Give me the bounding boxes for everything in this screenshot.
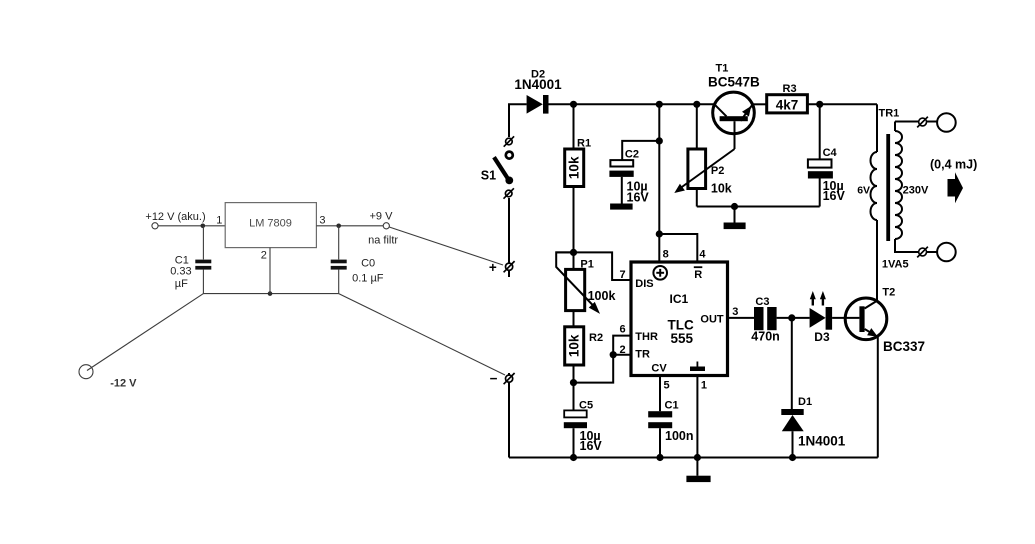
IC1 TLC555 box	[631, 262, 728, 376]
svg-text:−: −	[490, 371, 498, 386]
wire pin 2 to ground bus	[269, 248, 271, 294]
svg-text:10k: 10k	[711, 181, 732, 195]
connector minus contact	[504, 373, 515, 458]
capacitor C2	[609, 160, 633, 177]
node rail/R1	[570, 101, 577, 108]
wire pin4 branch	[659, 234, 697, 262]
svg-text:R1: R1	[577, 137, 591, 149]
wire C2 branch horizontal	[622, 141, 659, 160]
node input/C1 junction	[201, 224, 206, 229]
wire diagonal ground to minus connector	[339, 294, 505, 375]
ground below C2	[610, 204, 633, 210]
svg-text:+: +	[489, 260, 497, 275]
wire C0 stem lower	[338, 270, 340, 294]
wire C2 to ground	[621, 177, 623, 204]
node rail/pin1	[694, 454, 701, 461]
svg-text:BC547B: BC547B	[708, 74, 760, 89]
wire D3 to T2 base	[832, 317, 859, 319]
ground below pin1	[686, 476, 710, 482]
svg-text:C4: C4	[823, 147, 838, 159]
wire C1 bottom	[659, 428, 661, 457]
svg-text:BC337: BC337	[883, 339, 925, 354]
wire ground bus left	[203, 293, 338, 295]
wire P2 bottom	[696, 189, 698, 207]
svg-text:8: 8	[663, 249, 669, 261]
wire secondary top to connector	[895, 121, 919, 123]
wire C5 top	[573, 383, 575, 411]
wire C2 vertical rail to IC pin8	[658, 104, 660, 262]
svg-text:7: 7	[620, 269, 626, 281]
svg-text:0.1 µF: 0.1 µF	[352, 272, 384, 284]
resistor R1	[565, 149, 584, 187]
wire T2 emitter down	[877, 337, 879, 458]
wire T2 collector up	[876, 220, 878, 301]
node pin2/ground junction	[268, 291, 273, 296]
wire D1 bottom	[792, 431, 794, 457]
capacitor C1	[195, 260, 211, 264]
svg-text:CV: CV	[651, 362, 667, 374]
diode D1	[781, 409, 803, 431]
svg-text:3: 3	[732, 306, 738, 318]
wire C4 to P2 bottom	[697, 206, 820, 208]
svg-text:TR: TR	[635, 349, 650, 361]
svg-text:DIS: DIS	[635, 278, 653, 290]
svg-text:S1: S1	[481, 168, 496, 182]
terminal +9V output	[383, 223, 389, 229]
svg-text:10k: 10k	[567, 156, 582, 179]
output energy arrow	[948, 172, 964, 203]
svg-text:3: 3	[319, 214, 325, 226]
node R3/C4 junction	[816, 101, 823, 108]
node rail/P2	[693, 101, 700, 108]
wire pin3 OUT	[728, 317, 755, 319]
node rail/C5	[570, 454, 577, 461]
wire C1 stem upper	[202, 226, 204, 260]
wire T1 emitter to R3	[753, 103, 767, 105]
svg-text:T2: T2	[882, 287, 895, 299]
svg-text:4k7: 4k7	[776, 97, 799, 112]
IC internal ground mark	[690, 362, 705, 372]
transformer core	[886, 134, 890, 241]
svg-text:C3: C3	[755, 296, 769, 308]
wire R2 bottom	[573, 365, 575, 383]
wire C5 bottom	[573, 428, 575, 457]
node rail/D1	[789, 454, 796, 461]
bottom rail	[509, 457, 878, 459]
svg-text:6V: 6V	[857, 184, 870, 196]
pin 4 R-bar label	[694, 267, 703, 281]
transformer TR1 secondary	[895, 122, 919, 253]
svg-text:2: 2	[261, 249, 267, 261]
node rail/C1	[656, 454, 663, 461]
svg-text:-12 V: -12 V	[110, 378, 137, 390]
svg-text:R: R	[694, 269, 702, 281]
capacitor C3	[754, 307, 777, 330]
wire R1 bottom to P1	[573, 187, 575, 270]
svg-text:16V: 16V	[823, 189, 846, 203]
transistor T2 BC337	[845, 298, 887, 340]
wire R3 to transformer	[807, 103, 877, 105]
switch S1	[494, 136, 514, 198]
wire top rail D2 to T1	[549, 103, 715, 105]
capacitor C5	[564, 410, 587, 428]
capacitor C4	[808, 159, 833, 178]
svg-text:P1: P1	[580, 258, 593, 270]
svg-text:D1: D1	[798, 396, 812, 408]
transistor T1 BC547B	[713, 92, 755, 149]
svg-text:µF: µF	[175, 278, 188, 290]
wire input to regulator	[158, 225, 225, 227]
svg-text:C2: C2	[625, 148, 639, 160]
svg-text:C1: C1	[665, 400, 679, 412]
svg-text:1N4001: 1N4001	[514, 77, 562, 92]
output terminal bottom big	[926, 243, 956, 262]
wire diagonal +9V to plus connector	[389, 227, 503, 265]
wire regulator output	[316, 225, 383, 227]
wire junction to THR/TR	[574, 336, 632, 383]
svg-text:na filtr: na filtr	[368, 235, 398, 247]
node R2/C5 junction	[570, 379, 577, 386]
resistor R2	[565, 327, 584, 365]
output contact top small	[917, 117, 928, 128]
svg-text:2: 2	[620, 344, 626, 356]
svg-text:C0: C0	[361, 257, 375, 269]
svg-text:C5: C5	[579, 400, 593, 412]
wire P2 top	[696, 104, 698, 149]
LED D3	[810, 291, 833, 330]
svg-text:100n: 100n	[665, 429, 694, 443]
output contact bottom small	[917, 247, 928, 258]
wire pin1 down	[696, 376, 698, 476]
potentiometer P1	[556, 252, 600, 314]
diode D2	[527, 95, 549, 114]
wire P1 top to pin7	[556, 252, 632, 280]
svg-text:LM 7809: LM 7809	[249, 218, 292, 230]
svg-text:10k: 10k	[567, 334, 582, 357]
svg-text:555: 555	[671, 331, 694, 346]
svg-text:THR: THR	[635, 331, 658, 343]
wire C4 stem upper	[819, 104, 821, 159]
svg-text:T1: T1	[716, 62, 729, 74]
wire C3 to D3	[777, 317, 810, 319]
node P2/ground junction	[731, 203, 738, 210]
wire TR pin	[613, 354, 631, 356]
terminal -12V	[79, 365, 93, 379]
wire D1 vertical	[791, 318, 793, 409]
svg-text:IC1: IC1	[670, 292, 689, 306]
node TR junction	[610, 351, 617, 358]
svg-text:+12 V (aku.): +12 V (aku.)	[145, 211, 205, 223]
capacitor C1 100n	[648, 411, 672, 428]
svg-text:100k: 100k	[588, 289, 616, 303]
svg-text:4: 4	[699, 249, 706, 261]
svg-text:R2: R2	[589, 332, 603, 344]
wire diagonal to -12V terminal	[87, 294, 203, 371]
svg-text:16V: 16V	[580, 439, 603, 453]
svg-text:P2: P2	[711, 165, 724, 177]
wire S1 to plus connector	[508, 198, 510, 277]
transformer TR1 primary	[871, 104, 878, 220]
svg-text:1: 1	[701, 380, 707, 392]
svg-text:R3: R3	[783, 83, 797, 95]
svg-text:5: 5	[664, 380, 670, 392]
regulator U LM 7809	[225, 203, 316, 248]
svg-text:230V: 230V	[903, 184, 929, 196]
wire R1 top	[573, 104, 575, 149]
node pin4 branch	[656, 230, 663, 237]
svg-text:1N4001: 1N4001	[798, 433, 846, 448]
wire C1 stem lower	[202, 270, 204, 294]
wire C0 stem upper	[338, 226, 340, 260]
capacitor C0	[331, 260, 347, 264]
svg-text:OUT: OUT	[700, 313, 724, 325]
potentiometer P2	[674, 149, 734, 193]
ground below P2	[724, 207, 746, 230]
wire C4 stem lower	[819, 179, 821, 207]
svg-text:TR1: TR1	[879, 108, 900, 120]
node P1 top junction	[570, 249, 577, 256]
svg-text:470n: 470n	[751, 330, 780, 344]
node C2 branch	[656, 137, 663, 144]
wire S1 top vertical	[509, 104, 527, 137]
wire P1 to R2	[573, 311, 575, 327]
wire pin5 to C1	[659, 376, 661, 412]
svg-text:+9 V: +9 V	[370, 210, 394, 222]
node rail/C2	[656, 101, 663, 108]
pin 8 circle plus	[653, 266, 667, 280]
terminal +12V input	[152, 223, 158, 229]
svg-text:0.33: 0.33	[170, 266, 191, 278]
svg-text:1: 1	[216, 214, 222, 226]
svg-text:D3: D3	[814, 330, 830, 344]
node D1 branch	[788, 314, 795, 321]
node output/C0 junction	[336, 224, 341, 229]
resistor R3	[767, 95, 808, 113]
svg-text:C1: C1	[175, 254, 189, 266]
svg-text:(0,4 mJ): (0,4 mJ)	[930, 158, 977, 172]
svg-text:6: 6	[620, 324, 626, 336]
connector plus contact	[504, 261, 515, 272]
svg-text:16V: 16V	[627, 190, 650, 204]
output terminal top big	[926, 113, 956, 132]
svg-text:1VA5: 1VA5	[882, 258, 909, 270]
